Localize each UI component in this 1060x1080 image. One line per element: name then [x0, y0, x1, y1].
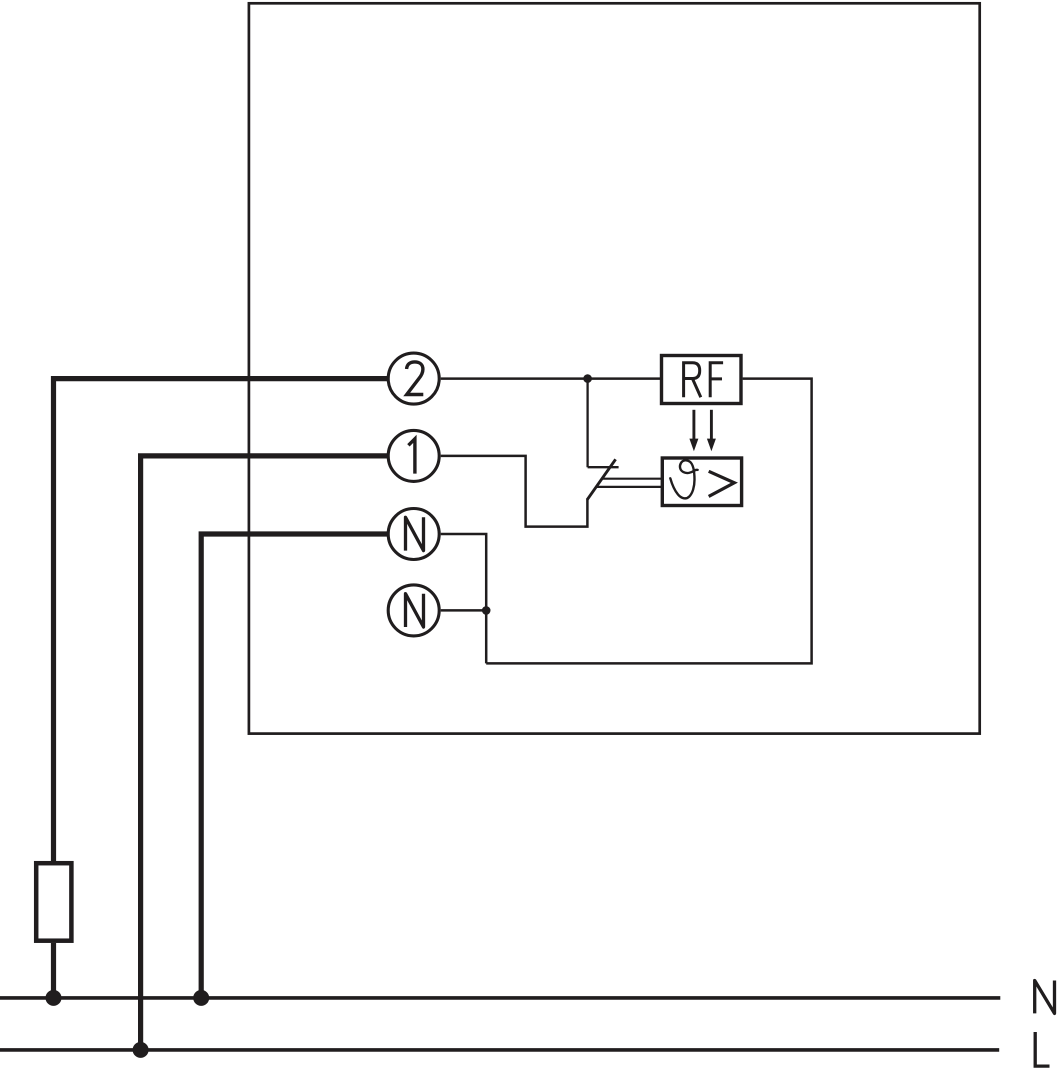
switch blade [587, 459, 616, 500]
wire: RF output right loop to internal N [486, 379, 811, 664]
junction: terminal N wire on N bus [193, 990, 209, 1006]
RF receiver box [662, 356, 742, 404]
junction: internal N node [482, 606, 491, 615]
switch fixed contact [588, 379, 619, 468]
wire: terminal N to internal N rail [441, 534, 487, 663]
label RF [684, 363, 724, 397]
wire: terminal 2 to RF box [441, 377, 660, 380]
control arrow (left) [689, 410, 698, 451]
junction: load on N bus [46, 990, 62, 1006]
wire: terminal N to N bus (thick) [201, 534, 388, 998]
thermostat box [662, 458, 741, 506]
terminal 1 [388, 430, 439, 481]
wire: terminal N (lower) stub [441, 609, 487, 612]
control arrow (right) [707, 410, 716, 451]
terminal N (upper) [388, 509, 439, 560]
N bus [0, 996, 1000, 1000]
junction: switch feed node [583, 374, 592, 383]
terminal 2 [388, 353, 439, 404]
label L (L bus) [1035, 1032, 1049, 1066]
label greater-than [709, 471, 735, 496]
resistor (load) [36, 863, 71, 941]
label N (N bus) [1035, 981, 1055, 1014]
mechanical link to thermostat [596, 479, 662, 487]
wire: terminal 2 to external load (thick) [54, 379, 389, 862]
wire: terminal 1 to L bus (thick) [141, 456, 388, 1050]
wire: load to N bus [51, 943, 56, 998]
terminal N (lower) [388, 585, 439, 636]
wire: switch to terminal 1 [441, 456, 588, 527]
label theta [670, 460, 697, 498]
junction: terminal 1 wire on L bus [133, 1042, 149, 1058]
L bus [0, 1048, 999, 1052]
device outline [249, 3, 980, 733]
